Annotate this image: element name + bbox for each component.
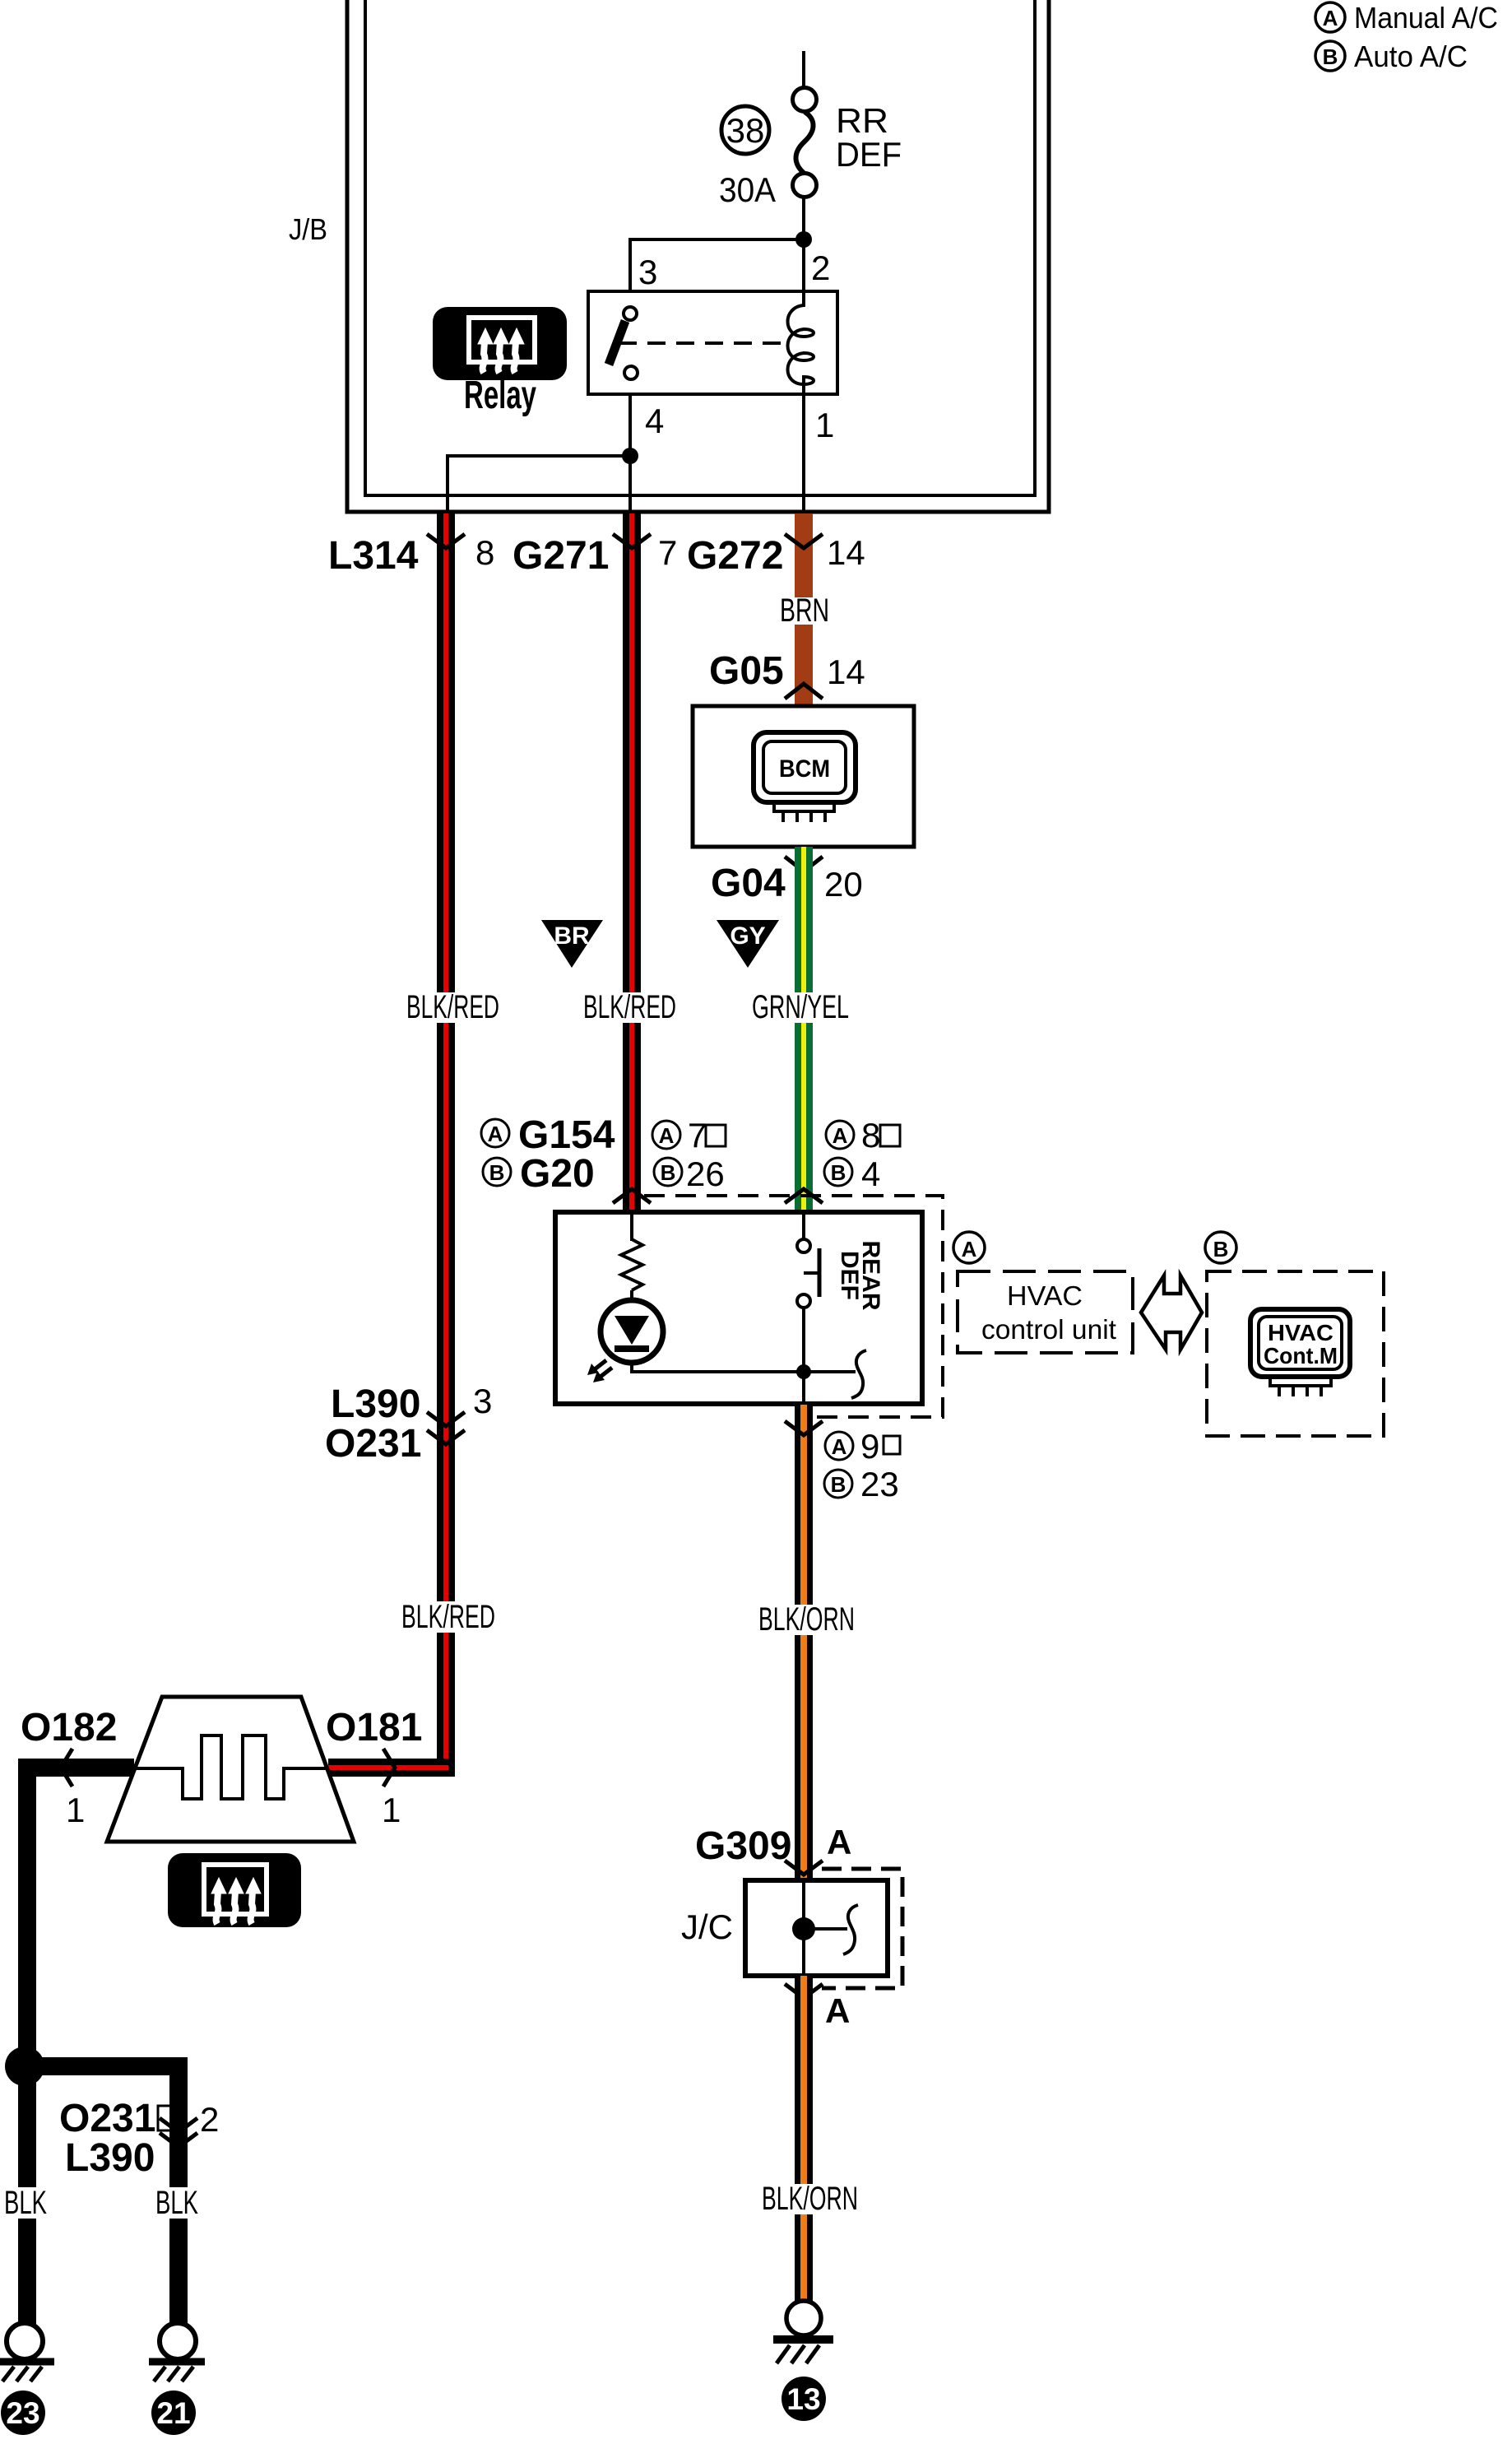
marker A (HVAC control unit) <box>953 1232 985 1263</box>
svg-text:G309: G309 <box>695 1824 791 1868</box>
bidirectional arrow <box>1141 1275 1202 1350</box>
svg-text:G272: G272 <box>687 534 783 578</box>
wire BRN (G272 circuit) <box>795 513 813 706</box>
label BLK/RED (wire 2) <box>578 989 679 1025</box>
connector G272 pin 14 <box>687 533 865 578</box>
svg-text:A: A <box>825 1991 850 2030</box>
connector O182 pin 1 <box>21 1706 117 1829</box>
svg-text:BLK: BLK <box>4 2185 47 2221</box>
svg-text:3: 3 <box>473 1382 492 1420</box>
wire BLK/ORN (switch output) <box>795 1405 813 1883</box>
node: fuse output junction <box>795 231 812 248</box>
connector G309 pin A <box>695 1823 851 1875</box>
ground G13 <box>773 2301 833 2363</box>
svg-text:L390: L390 <box>65 2136 155 2180</box>
svg-text:1: 1 <box>382 1791 401 1829</box>
svg-text:8: 8 <box>861 1116 880 1155</box>
svg-text:B: B <box>831 1472 846 1497</box>
color tag BR <box>541 920 603 968</box>
connector labels A 7 / B 26 (wire 2) <box>652 1116 726 1193</box>
svg-text:BLK/ORN: BLK/ORN <box>762 2181 858 2217</box>
wire: fuse to node <box>802 197 805 239</box>
label BLK (right) <box>153 2185 201 2221</box>
connector L314 pin 8 <box>328 533 494 578</box>
ground G23 <box>0 2323 54 2381</box>
connector G05 pin 14 <box>709 649 865 699</box>
wire: node to relay pin 3 <box>630 239 804 291</box>
connector chevron below HVAC <box>785 1421 823 1435</box>
svg-text:A: A <box>833 1123 848 1148</box>
connector labels A G154 / B G20 <box>481 1113 615 1196</box>
ground id 13 <box>782 2377 826 2421</box>
BCM module icon <box>754 732 856 822</box>
connector G04 pin 20 <box>711 857 863 905</box>
switch linkage hook <box>804 1350 866 1398</box>
wire: relay pin 4 down <box>628 394 632 517</box>
svg-text:G271: G271 <box>513 534 609 578</box>
label BLK/ORN (lower) <box>757 2181 860 2217</box>
svg-text:BRN: BRN <box>780 592 829 629</box>
svg-text:L390: L390 <box>331 1382 420 1426</box>
svg-text:38: 38 <box>726 111 765 150</box>
legend marker A: Manual A/C <box>1315 1 1498 35</box>
svg-text:14: 14 <box>827 653 865 691</box>
node: ground branch <box>5 2047 44 2086</box>
svg-text:A: A <box>659 1123 675 1148</box>
svg-text:14: 14 <box>827 533 865 572</box>
defroster icon (defogger) <box>168 1853 301 1927</box>
connector pin A (below J/C) <box>785 1984 850 2030</box>
svg-text:G20: G20 <box>520 1152 595 1196</box>
svg-text:BLK/RED: BLK/RED <box>583 989 676 1025</box>
node: pin 4 branch <box>622 448 638 464</box>
label RR DEF <box>836 101 902 174</box>
svg-text:BR: BR <box>554 922 590 950</box>
svg-text:23: 23 <box>860 1465 899 1503</box>
node: switch/LED junction <box>796 1364 811 1379</box>
svg-text:G154: G154 <box>518 1113 615 1157</box>
LED indicator <box>587 1300 663 1382</box>
wire: switch to node <box>802 1308 805 1405</box>
fuse 38 30A <box>719 88 817 210</box>
svg-text:A: A <box>1323 6 1338 30</box>
wire BLK/RED (L314 circuit) <box>328 513 455 1777</box>
connector chevron wire 2 at HVAC <box>613 1189 651 1203</box>
connector G271 pin 7 <box>513 533 677 578</box>
svg-text:Cont.M: Cont.M <box>1264 1343 1338 1368</box>
svg-text:B: B <box>831 1160 846 1185</box>
svg-text:9: 9 <box>860 1427 879 1466</box>
svg-text:O182: O182 <box>21 1706 117 1749</box>
label BLK/RED (wire 1) <box>401 989 502 1025</box>
HVAC Cont.M dashed box <box>1207 1271 1384 1436</box>
svg-text:B: B <box>1323 44 1338 69</box>
svg-text:O231: O231 <box>325 1422 421 1466</box>
svg-text:1: 1 <box>815 406 834 444</box>
svg-text:7: 7 <box>658 533 677 572</box>
svg-text:DEF: DEF <box>836 1251 863 1300</box>
svg-text:A: A <box>488 1122 503 1146</box>
svg-text:HVAC: HVAC <box>1007 1280 1083 1311</box>
svg-text:J/B: J/B <box>289 212 327 246</box>
svg-text:2: 2 <box>811 249 830 287</box>
svg-text:GY: GY <box>730 922 765 950</box>
resistor (LED dropping) <box>621 1239 642 1290</box>
svg-text:Relay: Relay <box>464 374 536 417</box>
legend marker B: Auto A/C <box>1315 39 1468 73</box>
label BLK (left) <box>2 2185 49 2221</box>
wire: node to relay pin 2 <box>802 239 805 291</box>
svg-text:BLK/RED: BLK/RED <box>401 1599 495 1635</box>
junction block J/B (double border box) <box>289 0 1049 512</box>
rear window defogger grid <box>107 1697 354 1842</box>
svg-text:3: 3 <box>638 253 657 291</box>
ground id 21 <box>151 2391 196 2435</box>
ground id 23 <box>1 2391 45 2435</box>
label BLK/RED (wire 1 lower) <box>397 1599 499 1635</box>
wire: resistor to LED <box>630 1290 633 1302</box>
connector chevron wire 3 at HVAC <box>785 1189 823 1203</box>
svg-text:L314: L314 <box>328 534 419 578</box>
wire: supply into fuse <box>802 51 805 87</box>
connector L390 / O231 pin 3 (wire 1) <box>325 1382 492 1466</box>
ground G21 <box>149 2323 205 2381</box>
wire: LED to node <box>632 1360 804 1372</box>
wire BLK branch to second ground <box>18 2057 188 2324</box>
svg-text:Manual A/C: Manual A/C <box>1354 1 1498 35</box>
svg-text:23: 23 <box>6 2396 39 2430</box>
svg-text:BLK/ORN: BLK/ORN <box>758 1601 855 1638</box>
wire: switch top <box>802 1212 805 1240</box>
switch REAR DEF (momentary) <box>797 1239 819 1308</box>
wire: into resistor <box>630 1212 633 1241</box>
connector labels A 9 / B 23 <box>824 1427 900 1503</box>
svg-text:20: 20 <box>824 865 863 904</box>
svg-text:G05: G05 <box>709 649 784 693</box>
wire BLK/RED (G271 circuit) <box>623 513 641 1212</box>
relay (rear defogger relay) <box>588 291 837 394</box>
svg-text:BLK: BLK <box>155 2185 198 2221</box>
marker B (HVAC Cont.M) <box>1205 1232 1236 1263</box>
HVAC control unit box <box>555 1212 922 1404</box>
label BLK/ORN <box>754 1601 857 1638</box>
svg-text:4: 4 <box>861 1155 880 1193</box>
wire GRN/YEL (G04 circuit) <box>795 847 813 1212</box>
svg-text:DEF: DEF <box>836 135 902 174</box>
connector labels A 8 / B 4 (wire 3) <box>824 1116 900 1193</box>
label REAR DEF (rotated) <box>836 1240 884 1310</box>
svg-text:control unit: control unit <box>981 1314 1116 1345</box>
wire: branch to L314 <box>448 456 630 517</box>
wire BLK (defogger ground side) <box>18 1759 134 2324</box>
svg-text:A: A <box>832 1434 847 1459</box>
HVAC Cont.M module icon <box>1250 1309 1350 1396</box>
BCM box <box>693 706 914 847</box>
svg-text:13: 13 <box>786 2382 820 2416</box>
svg-text:BCM: BCM <box>779 755 830 783</box>
svg-text:1: 1 <box>66 1791 85 1829</box>
svg-text:GRN/YEL: GRN/YEL <box>752 989 849 1025</box>
junction connector J/C <box>681 1869 902 1988</box>
label GRN/YEL (wire 3) <box>747 989 851 1025</box>
svg-text:21: 21 <box>156 2396 190 2430</box>
defroster indicator icon (relay) <box>433 307 567 380</box>
svg-text:G04: G04 <box>711 862 786 905</box>
connector O231 / L390 pin 2 <box>59 2097 219 2180</box>
svg-text:2: 2 <box>200 2100 219 2139</box>
label BRN <box>778 592 831 629</box>
HVAC control unit label box <box>958 1271 1133 1353</box>
svg-text:B: B <box>489 1160 505 1185</box>
svg-text:Auto A/C: Auto A/C <box>1354 39 1468 73</box>
connector O181 pin 1 <box>326 1706 422 1829</box>
color tag GY <box>717 920 779 968</box>
svg-text:J/C: J/C <box>681 1907 733 1946</box>
wire: relay pin 1 down <box>802 394 805 517</box>
svg-text:B: B <box>1213 1237 1229 1261</box>
svg-text:30A: 30A <box>719 170 776 209</box>
svg-text:8: 8 <box>475 533 494 572</box>
svg-text:26: 26 <box>686 1155 725 1193</box>
svg-text:HVAC: HVAC <box>1268 1320 1333 1345</box>
svg-text:7: 7 <box>688 1116 707 1155</box>
HVAC unit dashed outline (A) <box>644 1196 943 1417</box>
svg-text:B: B <box>661 1160 676 1185</box>
svg-text:A: A <box>827 1823 851 1861</box>
wire BLK/ORN to ground <box>795 1976 813 2301</box>
svg-text:O231: O231 <box>59 2097 155 2140</box>
svg-text:A: A <box>962 1237 977 1261</box>
svg-text:BLK/RED: BLK/RED <box>406 989 499 1025</box>
svg-text:4: 4 <box>645 402 664 440</box>
svg-text:RR: RR <box>836 101 888 140</box>
svg-text:O181: O181 <box>326 1706 422 1749</box>
